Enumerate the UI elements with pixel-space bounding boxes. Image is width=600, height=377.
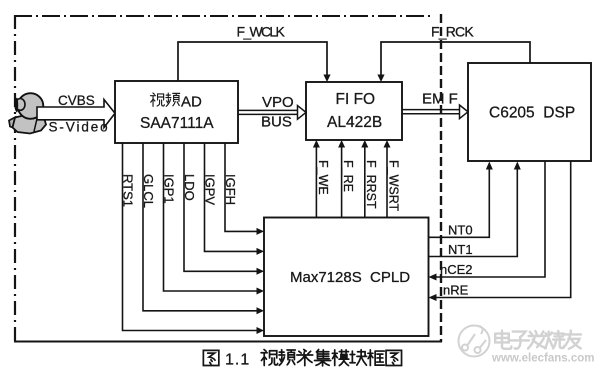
svg-text:NT1: NT1: [448, 242, 473, 257]
wire pin3 IGP1: [164, 143, 257, 291]
wire F_RRST: [364, 147, 366, 218]
svg-text:F_WCLK: F_WCLK: [237, 24, 286, 40]
frame bottom solid border: [14, 341, 442, 343]
svg-text:F_RCK: F_RCK: [431, 24, 474, 40]
svg-text:C6205 DSP: C6205 DSP: [489, 105, 575, 122]
svg-text:AL422B: AL422B: [327, 114, 382, 131]
svg-text:F_RRST: F_RRST: [364, 160, 378, 209]
svg-text:FI FO: FI FO: [336, 91, 376, 108]
wire F_WSRT: [386, 147, 388, 218]
svg-text:IGP1: IGP1: [162, 174, 177, 204]
svg-text:NT0: NT0: [448, 223, 473, 238]
wire F_RCK (DSP top to FIFO top): [381, 42, 530, 76]
wire VPO BUS (SAA7111A to FIFO, open bus arrow): [238, 109, 298, 111]
camera (video source): [9, 93, 46, 133]
label 视频AD: [150, 93, 164, 106]
wire pin2 GLCL: [143, 143, 257, 311]
frame right dashed border: [440, 14, 442, 342]
svg-text:IGPV: IGPV: [203, 174, 218, 205]
svg-text:RTS1: RTS1: [121, 174, 136, 207]
watermark elecfans logo: [459, 326, 490, 357]
wire pin6 IGFH: [225, 143, 257, 231]
wire NT0 (CPLD to DSP INT0): [429, 169, 490, 237]
frame left dash-dot border: [14, 15, 16, 341]
svg-text:CVBS: CVBS: [58, 93, 95, 108]
wire F_WE (CPLD to FIFO): [315, 147, 317, 218]
wire NT1 (CPLD to DSP INT1): [429, 169, 518, 257]
wire EMIF bus (FIFO to DSP, open bus arrow): [402, 109, 460, 111]
wire nRE (DSP to CPLD): [436, 161, 571, 298]
svg-text:VPO: VPO: [262, 94, 294, 111]
svg-text:S-Video: S-Video: [49, 120, 110, 135]
frame top dash-dot border: [14, 15, 430, 17]
watermark 电子发烧友: [495, 331, 581, 349]
wire pin1 RTS1 (SAA7111A to CPLD): [123, 143, 257, 331]
svg-text:BUS: BUS: [261, 114, 292, 131]
svg-text:nRE: nRE: [443, 283, 469, 298]
svg-text:LDO: LDO: [182, 174, 197, 201]
block U1 video AD SAA7111A: [115, 81, 238, 143]
wire F_RE: [341, 147, 343, 218]
svg-text:Max7128S CPLD: Max7128S CPLD: [290, 269, 410, 286]
svg-text:F_WE: F_WE: [316, 160, 330, 195]
svg-text:F_WSRT: F_WSRT: [387, 160, 401, 212]
caption 图 1.1 视频采集模块框图: [203, 350, 218, 365]
wire nCE2 (DSP to CPLD): [436, 161, 545, 277]
svg-text:nCE2: nCE2: [440, 262, 473, 277]
block U2 FIFO AL422B: [306, 82, 402, 140]
svg-text:GLCL: GLCL: [141, 174, 156, 208]
svg-text:F_RE: F_RE: [341, 160, 355, 192]
CVBS / S-Video input arrow: [37, 100, 115, 128]
wire F_WCLK (SAA7111A top to FIFO top): [178, 42, 327, 81]
block U3 C6205 DSP: [468, 63, 591, 161]
wire pin4 LDO: [184, 143, 257, 271]
block U4 Max7128S CPLD: [264, 218, 429, 337]
svg-text:SAA7111A: SAA7111A: [140, 115, 214, 132]
svg-text:AD: AD: [181, 94, 202, 111]
wire pin5 IGPV: [205, 143, 257, 251]
svg-text:1.1: 1.1: [225, 352, 250, 369]
svg-text:EM F: EM F: [422, 91, 458, 108]
svg-text:IGFH: IGFH: [223, 174, 238, 205]
svg-text:www.elecfans.com: www.elecfans.com: [491, 353, 594, 365]
